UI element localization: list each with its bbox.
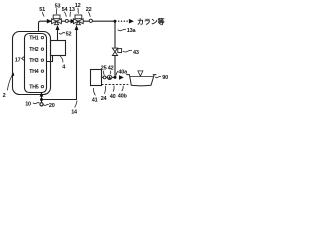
svg-text:41: 41: [92, 98, 98, 104]
sensor circle 25: [103, 76, 106, 79]
sensor circle 54: [65, 19, 68, 22]
wire pipe 51 from tank top to valve 53: [39, 21, 52, 32]
wire pipe valve12 to junction: [83, 20, 113, 22]
svg-text:40a: 40a: [118, 70, 128, 76]
wire pipe box4 bottom to tank: [47, 56, 53, 62]
tank inner wall: [25, 34, 47, 93]
wire dashed return pipe 40b: [102, 84, 129, 86]
flow arrow into tub: [119, 75, 124, 80]
svg-text:20: 20: [49, 103, 55, 109]
arrow to faucet: [129, 19, 134, 24]
svg-text:17: 17: [15, 57, 21, 63]
wire pipe 13a vertical: [114, 21, 116, 48]
svg-text:53: 53: [55, 3, 61, 9]
sensor circle 22: [89, 19, 92, 22]
heat source unit box 4: [51, 41, 66, 56]
svg-text:24: 24: [101, 96, 108, 102]
svg-text:TH5: TH5: [29, 84, 39, 90]
svg-text:40b: 40b: [118, 93, 128, 99]
svg-text:カラン等: カラン等: [137, 17, 165, 26]
junction node bath: [114, 76, 117, 79]
dotted pipe to faucet: [118, 21, 128, 22]
wire pipe box41 to junction: [102, 76, 114, 78]
svg-text:54: 54: [62, 7, 69, 13]
valve 12 three-way motor valve: [73, 15, 83, 25]
pump 42: [107, 75, 111, 79]
junction node top: [114, 20, 117, 23]
svg-text:TH1: TH1: [29, 35, 39, 41]
svg-text:90: 90: [162, 75, 168, 81]
tank 2 outer shell: [13, 32, 51, 95]
water level mark: [138, 71, 143, 76]
water inlet open circle 20: [40, 103, 43, 106]
svg-text:TH4: TH4: [29, 69, 39, 75]
wire pipe 10 tank inlet: [41, 96, 43, 103]
flow arrow into valve 53: [47, 19, 52, 24]
junction node bottom: [40, 98, 43, 101]
svg-text:13a: 13a: [127, 28, 137, 34]
svg-text:52: 52: [66, 32, 72, 38]
bath unit box 41: [91, 70, 102, 86]
wire riser 14 and bottom pipe 20: [42, 30, 77, 100]
svg-text:TH2: TH2: [29, 47, 39, 53]
flow arrow into valve 12: [71, 19, 76, 24]
water line: [130, 76, 154, 78]
valve 43 motor valve: [112, 48, 121, 55]
svg-text:10: 10: [25, 101, 31, 107]
svg-text:TH3: TH3: [29, 58, 39, 64]
arrow of riser 14: [75, 25, 79, 30]
bathtub 90: [126, 75, 156, 86]
wire riser 52 box4 to valve53: [57, 29, 59, 41]
arrow of riser 52: [56, 25, 60, 30]
wire pipe valve43 to junction: [114, 56, 116, 78]
svg-text:2: 2: [3, 93, 6, 99]
valve 53 three-way motor valve: [52, 15, 62, 25]
svg-text:4: 4: [62, 65, 66, 71]
arrow into tank bottom: [40, 92, 44, 97]
svg-text:14: 14: [71, 109, 78, 115]
svg-text:40: 40: [110, 94, 116, 100]
svg-text:43: 43: [133, 50, 139, 56]
wire main pipe between valves: [62, 20, 74, 22]
